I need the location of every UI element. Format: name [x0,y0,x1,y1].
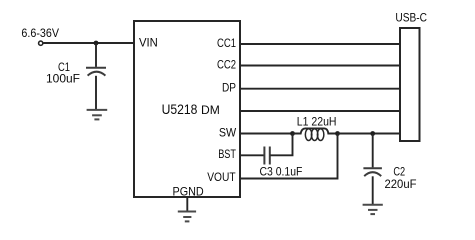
svg-text:BST: BST [218,147,236,161]
svg-text:VOUT: VOUT [207,170,236,184]
wire VOUT [240,134,338,179]
svg-text:USB-C: USB-C [395,11,427,25]
wire DM [240,110,400,112]
wire PGND [186,197,188,211]
wire C1 top lead [95,43,97,67]
wire C3 to SW node [270,134,292,156]
junction VIN/C1 [94,41,99,46]
svg-text:DP: DP [222,81,236,95]
svg-text:SW: SW [219,126,237,140]
ground (C1) [87,110,108,120]
svg-text:CC2: CC2 [217,57,236,71]
wire CC2 [240,65,400,67]
svg-text:C3 0.1uF: C3 0.1uF [260,165,303,179]
svg-text:L1 22uH: L1 22uH [297,114,337,128]
svg-text:100uF: 100uF [46,72,80,86]
svg-text:220uF: 220uF [385,177,417,191]
junction C2 tap [370,131,375,136]
svg-text:U5218: U5218 [162,101,198,117]
capacitor C2 [363,168,382,204]
wire CC1 [240,43,400,45]
capacitor C3 [264,147,269,165]
junction SW/L1/C3 [290,131,295,136]
wire VBUS to USB-C [338,133,401,135]
inductor L1 [293,128,338,140]
svg-text:PGND: PGND [173,184,204,198]
wire DP [240,88,400,90]
capacitor C1 [86,68,106,109]
ground (PGND) [178,212,196,222]
svg-text:CC1: CC1 [217,36,236,50]
svg-text:6.6-36V: 6.6-36V [21,26,59,40]
wire SW [240,133,293,135]
wire BST [240,154,264,156]
wire C2 top lead [372,134,374,168]
IC U5218 body [134,21,240,197]
input terminal [39,41,43,45]
svg-text:DM: DM [201,103,220,117]
wire VIN input [43,42,134,44]
ground (C2) [363,205,383,214]
svg-text:VIN: VIN [139,35,158,49]
USB-C connector [400,28,420,141]
junction L1/VOUT [335,131,340,136]
